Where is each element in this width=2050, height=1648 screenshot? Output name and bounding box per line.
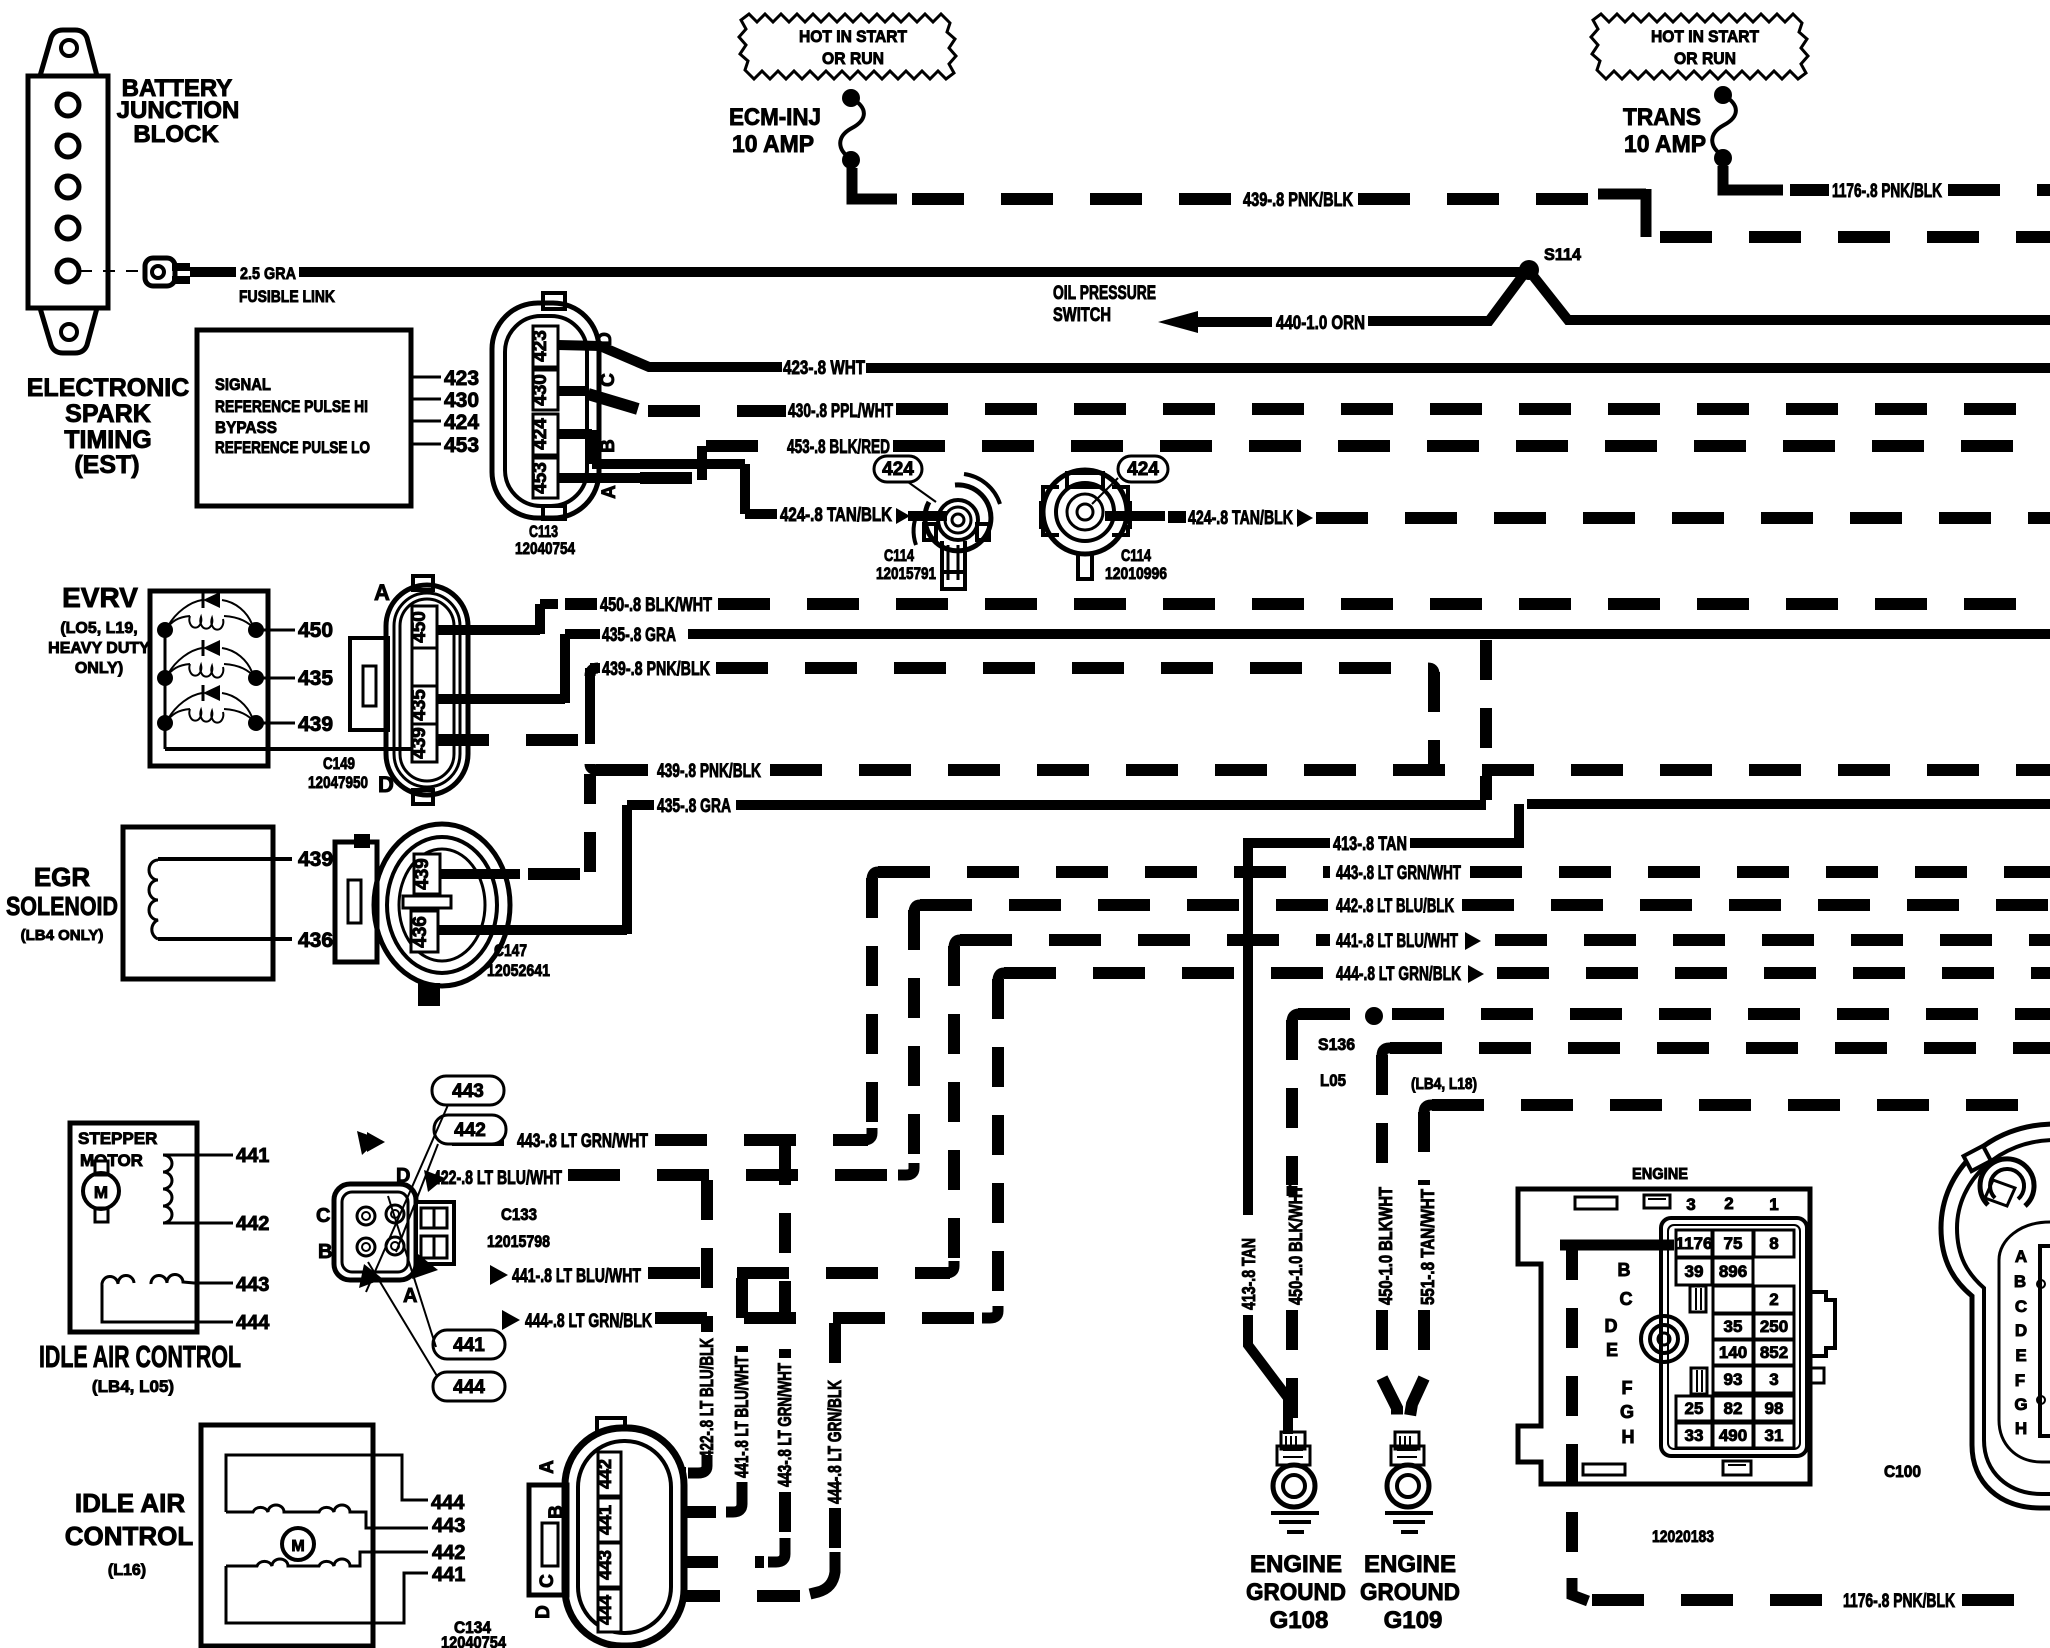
svg-text:GROUND: GROUND (1246, 1579, 1346, 1606)
svg-text:8: 8 (1769, 1234, 1778, 1253)
svg-text:444: 444 (453, 1377, 485, 1398)
svg-text:440-1.0 ORN: 440-1.0 ORN (1276, 313, 1365, 334)
svg-text:C: C (316, 1205, 330, 1227)
ENGINE bulkhead connector block (1518, 1166, 1835, 1546)
svg-text:442: 442 (595, 1459, 615, 1489)
battery junction block (28, 30, 108, 353)
svg-text:JUNCTION: JUNCTION (117, 97, 240, 124)
label battery junction block (117, 75, 240, 148)
svg-text:ONLY): ONLY) (75, 660, 123, 677)
vertical wire 441-.8 LT BLU/WHT to C134 pin 441 (736, 1278, 748, 1352)
fusible link terminal (80, 258, 190, 286)
svg-text:3: 3 (1686, 1195, 1695, 1214)
svg-text:250: 250 (1760, 1317, 1788, 1336)
wire 423-.8 WHT (558, 345, 782, 367)
svg-text:10 AMP: 10 AMP (732, 131, 814, 158)
svg-text:441: 441 (236, 1145, 269, 1167)
svg-text:B: B (1618, 1260, 1631, 1280)
svg-text:B: B (2014, 1272, 2026, 1291)
svg-text:OIL PRESSURE: OIL PRESSURE (1053, 283, 1156, 304)
svg-text:C133: C133 (501, 1205, 537, 1224)
wire 444-.8 LT GRN/BLK (lower run) (502, 1310, 520, 1330)
svg-text:450: 450 (409, 611, 430, 643)
svg-text:75: 75 (1724, 1234, 1743, 1253)
svg-text:1176: 1176 (1676, 1234, 1713, 1253)
svg-text:39: 39 (1685, 1262, 1704, 1281)
svg-text:442: 442 (236, 1213, 269, 1235)
svg-text:424: 424 (530, 418, 551, 450)
svg-text:B: B (546, 1505, 567, 1519)
wire 430-.8 PPL/WHT (558, 386, 588, 396)
svg-text:S136: S136 (1318, 1035, 1355, 1054)
svg-text:35: 35 (1724, 1317, 1743, 1336)
HOT IN START OR RUN bubble (left) (739, 14, 956, 79)
wire 440-1.0 ORN with arrow to oil pressure switch (1158, 311, 1198, 333)
svg-text:B: B (318, 1241, 332, 1263)
svg-text:2.5 GRA: 2.5 GRA (240, 264, 296, 283)
svg-text:436: 436 (410, 916, 431, 948)
svg-text:450: 450 (298, 619, 333, 642)
svg-text:HOT IN START: HOT IN START (1651, 27, 1760, 46)
svg-text:423-.8 WHT: 423-.8 WHT (783, 358, 865, 379)
idle air control stepper motor module (70, 1123, 270, 1334)
svg-text:424-.8 TAN/BLK: 424-.8 TAN/BLK (780, 505, 892, 526)
svg-text:C: C (2015, 1297, 2027, 1316)
connector C133 (316, 1165, 550, 1307)
EVRV module (150, 591, 420, 766)
svg-text:G: G (1620, 1402, 1634, 1422)
svg-text:443: 443 (452, 1081, 484, 1102)
svg-text:1176-.8 PNK/BLK: 1176-.8 PNK/BLK (1832, 181, 1942, 202)
svg-text:C: C (598, 373, 619, 387)
svg-text:TIMING: TIMING (64, 426, 152, 454)
svg-text:441-.8 LT BLU/WHT: 441-.8 LT BLU/WHT (732, 1356, 752, 1478)
EST pin stub lines and numbers (411, 367, 479, 457)
svg-text:CONTROL: CONTROL (65, 1521, 194, 1551)
wire 2.5 GRA fusible link (190, 267, 236, 277)
svg-text:E: E (1606, 1340, 1618, 1360)
svg-text:436: 436 (298, 929, 333, 952)
svg-text:551-.8 TAN/WHT: 551-.8 TAN/WHT (1418, 1189, 1438, 1305)
wire 551-.8 TAN/WHT (to G109) (1418, 1112, 1430, 1185)
svg-text:SPARK: SPARK (65, 400, 151, 428)
svg-text:422-.8 LT BLU/WHT: 422-.8 LT BLU/WHT (433, 1168, 562, 1189)
splice S136 and ground feed wires (1286, 1020, 1298, 1185)
connector C114 12015791 (874, 456, 1000, 589)
svg-text:435-.8 GRA: 435-.8 GRA (657, 796, 731, 817)
wire 442-.8 LT BLU/BLK (upper run) (908, 910, 920, 1175)
svg-text:H: H (2015, 1419, 2027, 1438)
svg-text:443: 443 (432, 1515, 465, 1537)
svg-text:2: 2 (1769, 1290, 1778, 1309)
wire 1176-.8 PNK/BLK (from TRANS fuse) (1723, 166, 1783, 190)
svg-text:C100: C100 (1884, 1462, 1921, 1481)
svg-text:444-.8 LT GRN/BLK: 444-.8 LT GRN/BLK (525, 1311, 652, 1332)
svg-text:12040754: 12040754 (515, 539, 575, 558)
svg-text:424-.8 TAN/BLK: 424-.8 TAN/BLK (1188, 508, 1293, 529)
wire corner elbows (590, 668, 1440, 1318)
wire 443-.8 LT GRN/WHT (upper run) (878, 866, 1330, 878)
svg-text:439-.8 PNK/BLK: 439-.8 PNK/BLK (602, 659, 710, 680)
svg-text:12040754: 12040754 (441, 1633, 506, 1648)
svg-text:BYPASS: BYPASS (215, 418, 277, 437)
svg-text:98: 98 (1765, 1399, 1784, 1418)
svg-text:HEAVY DUTY: HEAVY DUTY (48, 640, 150, 657)
svg-text:ENGINE: ENGINE (1250, 1551, 1342, 1578)
connector C113 (492, 293, 620, 558)
svg-text:(EST): (EST) (74, 451, 139, 479)
wire 450-.8 BLK/WHT (437, 604, 558, 634)
svg-text:413-.8 TAN: 413-.8 TAN (1239, 1238, 1259, 1310)
svg-text:C: C (1620, 1289, 1633, 1309)
svg-text:82: 82 (1724, 1399, 1743, 1418)
svg-text:EGR: EGR (34, 862, 91, 892)
connector C149 (308, 576, 468, 804)
svg-text:443: 443 (236, 1274, 269, 1296)
svg-text:REFERENCE PULSE HI: REFERENCE PULSE HI (215, 397, 368, 416)
label electronic spark timing (27, 374, 190, 479)
svg-text:M: M (291, 1538, 304, 1555)
svg-text:TRANS: TRANS (1623, 104, 1701, 131)
svg-text:441: 441 (453, 1335, 485, 1356)
wire 435-.8 GRA (from C147 pin 436) (439, 805, 654, 934)
clips (1690, 1286, 1706, 1312)
svg-text:SOLENOID: SOLENOID (6, 891, 118, 921)
wire 424-.8 TAN/BLK (558, 430, 777, 514)
svg-text:31: 31 (1765, 1426, 1784, 1445)
svg-text:450-1.0 BLK/WHT: 450-1.0 BLK/WHT (1286, 1185, 1306, 1305)
svg-text:450-1.0 BLKWHT: 450-1.0 BLKWHT (1376, 1187, 1396, 1305)
circuit tag ovals 443 / 442 / 441 / 444 (366, 1076, 506, 1401)
svg-text:422-.8 LT BLU/BLK: 422-.8 LT BLU/BLK (697, 1338, 717, 1458)
svg-text:430: 430 (444, 389, 479, 412)
svg-text:12015791: 12015791 (876, 564, 936, 583)
ring terminal engine ground G108 (1271, 1432, 1319, 1532)
svg-text:442: 442 (432, 1542, 465, 1564)
svg-text:E: E (2015, 1346, 2026, 1365)
EGR solenoid (123, 827, 333, 979)
svg-text:HOT IN START: HOT IN START (799, 27, 908, 46)
svg-text:423: 423 (444, 367, 479, 390)
grid cells (1676, 1230, 1794, 1448)
svg-text:1: 1 (1769, 1195, 1778, 1214)
label engine ground G108 (1246, 1551, 1346, 1634)
svg-text:12020183: 12020183 (1652, 1527, 1714, 1546)
svg-text:443-.8 LT GRN/WHT: 443-.8 LT GRN/WHT (1336, 863, 1461, 884)
svg-text:ECM-INJ: ECM-INJ (729, 104, 821, 131)
svg-text:H: H (1622, 1427, 1635, 1447)
svg-text:443-.8 LT GRN/WHT: 443-.8 LT GRN/WHT (775, 1363, 795, 1487)
svg-text:439: 439 (298, 848, 333, 871)
svg-text:SWITCH: SWITCH (1053, 305, 1111, 326)
svg-text:439: 439 (409, 727, 430, 759)
HOT IN START OR RUN bubble (right) (1591, 14, 1808, 79)
svg-text:G108: G108 (1270, 1607, 1329, 1634)
svg-text:D: D (1605, 1316, 1618, 1336)
wire 439-.8 PNK/BLK (from C149) (437, 734, 590, 746)
svg-text:STEPPER: STEPPER (78, 1129, 157, 1148)
wire 441-.8 LT BLU/WHT (lower run) (490, 1265, 508, 1285)
svg-text:D: D (2015, 1321, 2027, 1340)
svg-text:A: A (599, 485, 620, 499)
svg-text:G109: G109 (1384, 1607, 1443, 1634)
svg-text:C114: C114 (884, 546, 914, 565)
wire 444-.8 LT GRN/BLK (upper run) (992, 979, 1004, 1318)
svg-text:25: 25 (1685, 1399, 1704, 1418)
svg-text:EVRV: EVRV (62, 582, 138, 613)
svg-text:12015798: 12015798 (487, 1232, 550, 1251)
svg-text:ELECTRONIC: ELECTRONIC (27, 374, 190, 402)
svg-text:FUSIBLE LINK: FUSIBLE LINK (239, 287, 336, 306)
wire 450-1.0 BLKWHT (to G109) (1376, 1055, 1388, 1185)
vertical wire 422-.8 LT BLU/BLK to C134 pin 442 (701, 1180, 713, 1332)
svg-text:F: F (1622, 1378, 1633, 1398)
svg-text:IDLE AIR: IDLE AIR (75, 1488, 185, 1518)
svg-text:424: 424 (444, 411, 479, 434)
label engine ground G109 (1360, 1551, 1460, 1634)
svg-text:A: A (374, 580, 390, 605)
svg-text:439: 439 (298, 713, 333, 736)
svg-text:441-.8 LT BLU/WHT: 441-.8 LT BLU/WHT (512, 1266, 641, 1287)
svg-text:(LB4, L18): (LB4, L18) (1411, 1076, 1477, 1093)
svg-text:453: 453 (444, 434, 479, 457)
svg-text:C: C (537, 1574, 558, 1588)
bottom slots (1583, 1464, 1625, 1475)
wire 453-.8 BLK/RED (558, 473, 640, 483)
svg-text:(L16): (L16) (108, 1562, 146, 1579)
wire 439-.8 PNK/BLK (from ECM-INJ fuse) (852, 168, 897, 199)
svg-text:L05: L05 (1320, 1071, 1346, 1090)
svg-text:93: 93 (1724, 1370, 1743, 1389)
svg-text:BLOCK: BLOCK (133, 121, 219, 148)
svg-text:444: 444 (236, 1312, 270, 1334)
svg-text:441: 441 (595, 1505, 615, 1535)
vertical wire 444-.8 LT GRN/BLK to C134 pin 444 (829, 1323, 841, 1376)
label EGR solenoid (6, 862, 118, 944)
svg-text:D: D (396, 1165, 410, 1187)
svg-text:SIGNAL: SIGNAL (215, 375, 271, 394)
svg-text:413-.8 TAN: 413-.8 TAN (1333, 834, 1407, 855)
svg-text:B: B (598, 439, 619, 453)
svg-text:A: A (537, 1460, 558, 1474)
svg-text:439-.8 PNK/BLK: 439-.8 PNK/BLK (1243, 190, 1353, 211)
svg-text:10 AMP: 10 AMP (1624, 131, 1706, 158)
svg-text:OR RUN: OR RUN (822, 49, 884, 68)
svg-text:140: 140 (1719, 1343, 1747, 1362)
svg-text:896: 896 (1719, 1262, 1747, 1281)
connector C114 12010996 (1041, 456, 1168, 583)
svg-text:D: D (378, 772, 394, 797)
junction 435 GRA to lower 435 GRA run (1480, 640, 1492, 800)
svg-text:435: 435 (298, 667, 333, 690)
svg-text:(LO5, L19,: (LO5, L19, (60, 620, 137, 637)
svg-text:M: M (94, 1183, 108, 1202)
svg-text:442-.8 LT BLU/BLK: 442-.8 LT BLU/BLK (1336, 896, 1454, 917)
svg-text:IDLE AIR CONTROL: IDLE AIR CONTROL (39, 1339, 241, 1374)
svg-text:3: 3 (1769, 1370, 1778, 1389)
svg-text:439-.8 PNK/BLK: 439-.8 PNK/BLK (657, 761, 761, 782)
ring terminal engine ground G109 (1385, 1432, 1433, 1532)
svg-text:ENGINE: ENGINE (1632, 1166, 1688, 1183)
svg-text:424: 424 (1127, 459, 1159, 480)
svg-text:453-.8 BLK/RED: 453-.8 BLK/RED (787, 437, 890, 458)
electronic spark timing (EST) module (197, 330, 411, 506)
svg-text:442: 442 (454, 1120, 486, 1141)
C133 corner wedges (357, 1131, 379, 1155)
svg-text:443-.8 LT GRN/WHT: 443-.8 LT GRN/WHT (517, 1131, 648, 1152)
idle air control module (L16) (201, 1425, 465, 1646)
svg-text:GROUND: GROUND (1360, 1579, 1460, 1606)
splice S114 (1519, 260, 1539, 280)
label EVRV (48, 582, 150, 677)
wire 441-.8 LT BLU/WHT (upper run) (948, 946, 960, 1273)
svg-text:444: 444 (431, 1492, 465, 1514)
svg-text:C114: C114 (1121, 546, 1151, 565)
svg-text:444-.8 LT GRN/BLK: 444-.8 LT GRN/BLK (825, 1380, 845, 1504)
svg-text:443: 443 (595, 1550, 615, 1580)
svg-text:444-.8 LT GRN/BLK: 444-.8 LT GRN/BLK (1336, 964, 1461, 985)
svg-text:S114: S114 (1544, 245, 1582, 264)
svg-text:430-.8 PPL/WHT: 430-.8 PPL/WHT (788, 401, 893, 422)
svg-text:(LB4, L05): (LB4, L05) (92, 1377, 174, 1396)
svg-text:444: 444 (595, 1595, 615, 1625)
connector C134 (529, 1418, 684, 1646)
svg-text:A: A (403, 1285, 417, 1307)
svg-text:852: 852 (1760, 1343, 1788, 1362)
wire 443-.8 LT GRN/WHT (lower run to C133/C134) (367, 1132, 385, 1152)
svg-text:423: 423 (530, 330, 551, 362)
svg-text:A: A (2015, 1247, 2027, 1266)
svg-text:F: F (2015, 1371, 2025, 1390)
svg-text:453: 453 (530, 462, 551, 494)
svg-text:ENGINE: ENGINE (1364, 1551, 1456, 1578)
svg-text:435: 435 (409, 689, 430, 721)
svg-text:435-.8 GRA: 435-.8 GRA (602, 625, 676, 646)
svg-text:424: 424 (882, 459, 914, 480)
svg-text:2: 2 (1724, 1194, 1733, 1213)
svg-text:(LB4 ONLY): (LB4 ONLY) (21, 927, 104, 944)
vertical wire 443-.8 LT GRN/WHT to C134 pin 443 (779, 1145, 791, 1358)
fuse TRANS 10 AMP (1623, 86, 1736, 167)
svg-text:33: 33 (1685, 1426, 1704, 1445)
center bolt (1641, 1316, 1687, 1362)
wire 413-.8 TAN (1243, 843, 1330, 1215)
svg-text:D: D (533, 1605, 554, 1619)
svg-text:C149: C149 (323, 754, 355, 773)
svg-text:1176-.8 PNK/BLK: 1176-.8 PNK/BLK (1843, 1591, 1955, 1612)
svg-text:12047950: 12047950 (308, 773, 368, 792)
svg-text:C147: C147 (494, 941, 527, 960)
svg-text:12052641: 12052641 (487, 961, 550, 980)
svg-text:MOTOR: MOTOR (80, 1151, 143, 1170)
wire 435-.8 GRA (437, 634, 600, 703)
svg-text:G: G (2014, 1395, 2027, 1414)
svg-text:441: 441 (432, 1564, 465, 1586)
wire 439-.8 PNK/BLK (from C147) (440, 869, 520, 879)
right tabs (1810, 1292, 1835, 1356)
svg-text:439: 439 (412, 858, 433, 890)
svg-text:430: 430 (530, 374, 551, 406)
svg-text:OR RUN: OR RUN (1674, 49, 1736, 68)
wire 1176-.8 PNK/BLK (lower run) (1560, 1240, 1674, 1251)
svg-text:490: 490 (1719, 1426, 1747, 1445)
svg-text:441-.8 LT BLU/WHT: 441-.8 LT BLU/WHT (1336, 931, 1458, 952)
connector C100 (partial, right edge) (1941, 1124, 2050, 1508)
svg-text:12010996: 12010996 (1105, 564, 1167, 583)
fuse ECM-INJ 10 AMP (729, 89, 864, 169)
svg-text:REFERENCE PULSE LO: REFERENCE PULSE LO (215, 438, 370, 457)
svg-text:450-.8 BLK/WHT: 450-.8 BLK/WHT (600, 595, 712, 616)
EVRV diodes (203, 592, 220, 608)
connector C147 (335, 824, 550, 1006)
